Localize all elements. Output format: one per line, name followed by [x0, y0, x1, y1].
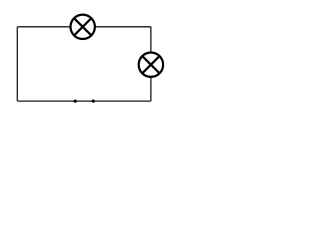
wire: right side of loop [150, 27, 152, 101]
wire: left side of loop [16, 27, 18, 101]
junction dot (left, bottom wire) [74, 100, 77, 103]
lamp L2 (right wire) [139, 52, 163, 76]
wire: top side of loop [17, 26, 151, 28]
junction dot (right, bottom wire) [92, 100, 95, 103]
lamp L1 (top wire) [71, 15, 95, 39]
wire: bottom side of loop [17, 100, 151, 102]
